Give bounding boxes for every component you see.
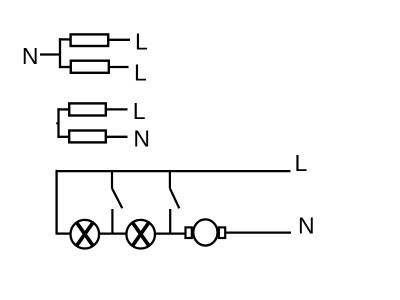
load box 2 — [71, 61, 109, 73]
svg-text:L: L — [133, 98, 146, 124]
wire to load box 1 — [59, 38, 71, 40]
switch S2 blade — [170, 188, 179, 208]
wire from load box 3 to L — [107, 108, 128, 110]
load box 3 — [69, 103, 106, 115]
svg-text:N: N — [298, 213, 315, 239]
motor M1 — [186, 219, 226, 245]
node stub on fork — [56, 122, 58, 124]
wire left drop from L rail — [55, 170, 57, 234]
wire lamp 1 to lamp 2 — [99, 232, 127, 234]
svg-text:L: L — [295, 150, 308, 176]
wire to load box 4 — [57, 136, 69, 138]
switch S1 blade — [112, 188, 122, 208]
wire from load box 4 to N — [107, 136, 128, 138]
wire to load box 3 — [57, 108, 69, 110]
load box 1 — [71, 34, 109, 46]
svg-text:N: N — [22, 43, 39, 69]
svg-text:L: L — [135, 28, 148, 54]
wire L rail (bottom circuit) — [57, 170, 291, 172]
wire from load box 2 to L — [109, 66, 129, 68]
switch S2 upper terminal wire — [169, 171, 171, 188]
wire to load box 2 — [59, 66, 71, 68]
switch S1 lower terminal wire — [111, 209, 113, 234]
switch S2 lower terminal wire — [169, 209, 171, 234]
wire fork vertical (top group) — [59, 38, 61, 68]
load box 4 — [69, 131, 106, 143]
switch S1 upper terminal wire — [111, 171, 113, 188]
lamp 2 — [126, 220, 155, 249]
svg-text:N: N — [133, 126, 150, 152]
wire fork vertical (middle group) — [57, 108, 59, 138]
wire to lamp 1 — [56, 232, 71, 234]
wire motor to N — [226, 231, 291, 233]
wire from load box 1 to L — [109, 39, 131, 41]
lamp 1 — [71, 220, 100, 249]
wire from N to fork node — [40, 53, 60, 55]
wire lamp 2 to motor — [155, 232, 186, 234]
svg-text:L: L — [134, 60, 147, 86]
